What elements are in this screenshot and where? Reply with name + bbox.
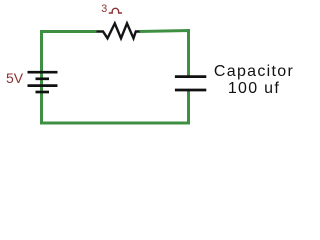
label Capacitor 100 uf xyxy=(210,63,298,97)
battery U1 bars xyxy=(28,72,58,92)
label 3 (resistor value) xyxy=(101,3,107,15)
wire capacitor bottom leg xyxy=(187,90,190,123)
wire top-left to resistor xyxy=(42,32,97,124)
resistor R1 xyxy=(97,23,140,38)
wire resistor to top-right corner xyxy=(139,31,189,76)
wire bottom xyxy=(40,122,190,125)
label ohm symbol xyxy=(109,8,122,13)
capacitor C1 plates xyxy=(175,77,206,90)
label 5V (battery) xyxy=(6,70,23,86)
